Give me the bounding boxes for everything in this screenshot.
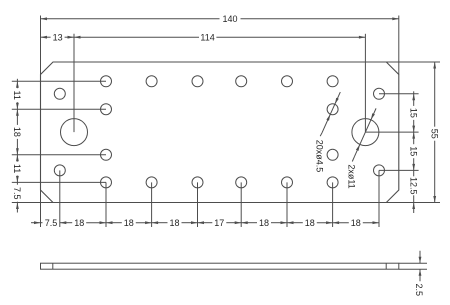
left chain extension line row4 [12, 181, 106, 183]
big hole left (11 dia) [61, 119, 88, 146]
hole top row #4 (4.5 dia) [236, 76, 247, 87]
bottom chain extension line col8 [378, 170, 380, 227]
left chain dim line with arrows (11,18,11,7.5) [16, 79, 19, 213]
dim 2.5 extension line top [399, 262, 427, 264]
hole top row #1 (4.5 dia) [101, 76, 112, 87]
hole top row #6 (4.5 dia) [327, 76, 338, 87]
leader 2x dia 11 (arrows at big hole, tail to label) [352, 108, 376, 161]
dim 2.5 lines with outside arrows [419, 251, 422, 281]
right chain dim line with arrows (15,15,12.5) [412, 91, 415, 213]
right chain / 55 extension line bottom edge [386, 202, 440, 204]
svg-text:140: 140 [222, 14, 237, 24]
hole corner lower-right (4.5 dia) [374, 165, 385, 176]
left chain extension line bottom edge [12, 202, 53, 204]
svg-text:20xø4.5: 20xø4.5 [315, 140, 325, 173]
hole bottom row #2 (4.5 dia) [146, 177, 157, 188]
bottom chain dim line with arrows (7.5,18,18,18,17,18,18,18) [31, 221, 379, 224]
bottom chain extension line col5 [240, 182, 242, 227]
svg-text:11: 11 [12, 164, 22, 173]
bottom chain extension line col2 [105, 182, 107, 227]
hole bottom row #3 (4.5 dia) [192, 177, 203, 188]
left chain extension line row2 [12, 108, 106, 110]
hole bottom row #5 (4.5 dia) [282, 177, 293, 188]
bottom chain extension line col3 [151, 182, 153, 227]
hole third row left (4.5 dia) [101, 149, 112, 160]
right chain extension line upper corner hole [379, 93, 419, 95]
bottom chain extension line plate left edge [40, 189, 42, 227]
hole corner upper-right (4.5 dia) [374, 88, 385, 99]
plate outline (main top view, chamfered corners) [41, 62, 399, 203]
hole top row #3 (4.5 dia) [192, 76, 203, 87]
svg-text:114: 114 [200, 32, 214, 42]
svg-text:7.5: 7.5 [45, 218, 58, 228]
right chain extension line big hole [365, 131, 418, 133]
left chain extension line row1 [12, 80, 106, 82]
hole third row right (4.5 dia) [327, 149, 338, 160]
side view chamfer line right [385, 263, 387, 269]
svg-text:18: 18 [351, 218, 361, 228]
side view plate strip outline [41, 263, 399, 269]
dim 114 extension line (big hole centerline right) [364, 34, 366, 132]
hole corner lower-left (4.5 dia) [54, 165, 65, 176]
dim 140 line with arrows [41, 17, 399, 20]
hole second row left (4.5 dia) [101, 104, 112, 115]
svg-text:18: 18 [124, 218, 134, 228]
leader 20x dia 4.5 (arrows at small hole, tail to label) [320, 92, 340, 136]
svg-text:2xø11: 2xø11 [346, 164, 356, 188]
big hole right (11 dia) [352, 119, 379, 146]
hole bottom row #1 (4.5 dia) [101, 177, 112, 188]
svg-text:18: 18 [305, 218, 315, 228]
bottom chain extension line col6 [286, 182, 288, 227]
dim 13 extension line (first column / big hole centerline left) [73, 34, 75, 132]
svg-text:18: 18 [259, 218, 269, 228]
hole bottom row #4 (4.5 dia) [236, 177, 247, 188]
hole top row #2 (4.5 dia) [146, 76, 157, 87]
svg-text:15: 15 [409, 108, 419, 118]
dim 140 extension line right [398, 16, 400, 75]
dim 140 extension line left [40, 16, 42, 75]
dim 13 line with arrows [41, 36, 75, 39]
hole corner upper-left (4.5 dia) [54, 88, 65, 99]
svg-text:2.5: 2.5 [414, 283, 424, 296]
svg-text:17: 17 [214, 218, 224, 228]
svg-text:13: 13 [53, 32, 63, 42]
bottom chain extension line col7 [332, 182, 334, 227]
svg-text:55: 55 [430, 129, 440, 139]
hole top row #5 (4.5 dia) [282, 76, 293, 87]
right chain extension line lower corner hole [379, 169, 419, 171]
svg-text:7.5: 7.5 [12, 187, 22, 200]
dim 55 line with arrows [433, 62, 436, 203]
svg-text:15: 15 [409, 146, 419, 156]
svg-text:12.5: 12.5 [409, 177, 419, 195]
dim 55 extension line top edge [386, 61, 440, 63]
side view chamfer line left [52, 263, 54, 269]
left chain extension line row3 [12, 154, 106, 156]
svg-text:18: 18 [169, 218, 179, 228]
hole bottom row #6 (4.5 dia) [327, 177, 338, 188]
dim 114 line with arrows [74, 36, 365, 39]
bottom chain extension line col1 [59, 170, 61, 227]
svg-text:18: 18 [74, 218, 84, 228]
dim 2.5 extension line bottom [399, 268, 427, 270]
hole second row right (4.5 dia, leader target) [327, 104, 338, 115]
svg-text:18: 18 [12, 127, 22, 137]
svg-text:11: 11 [12, 91, 22, 100]
bottom chain extension line col4 [197, 182, 199, 227]
